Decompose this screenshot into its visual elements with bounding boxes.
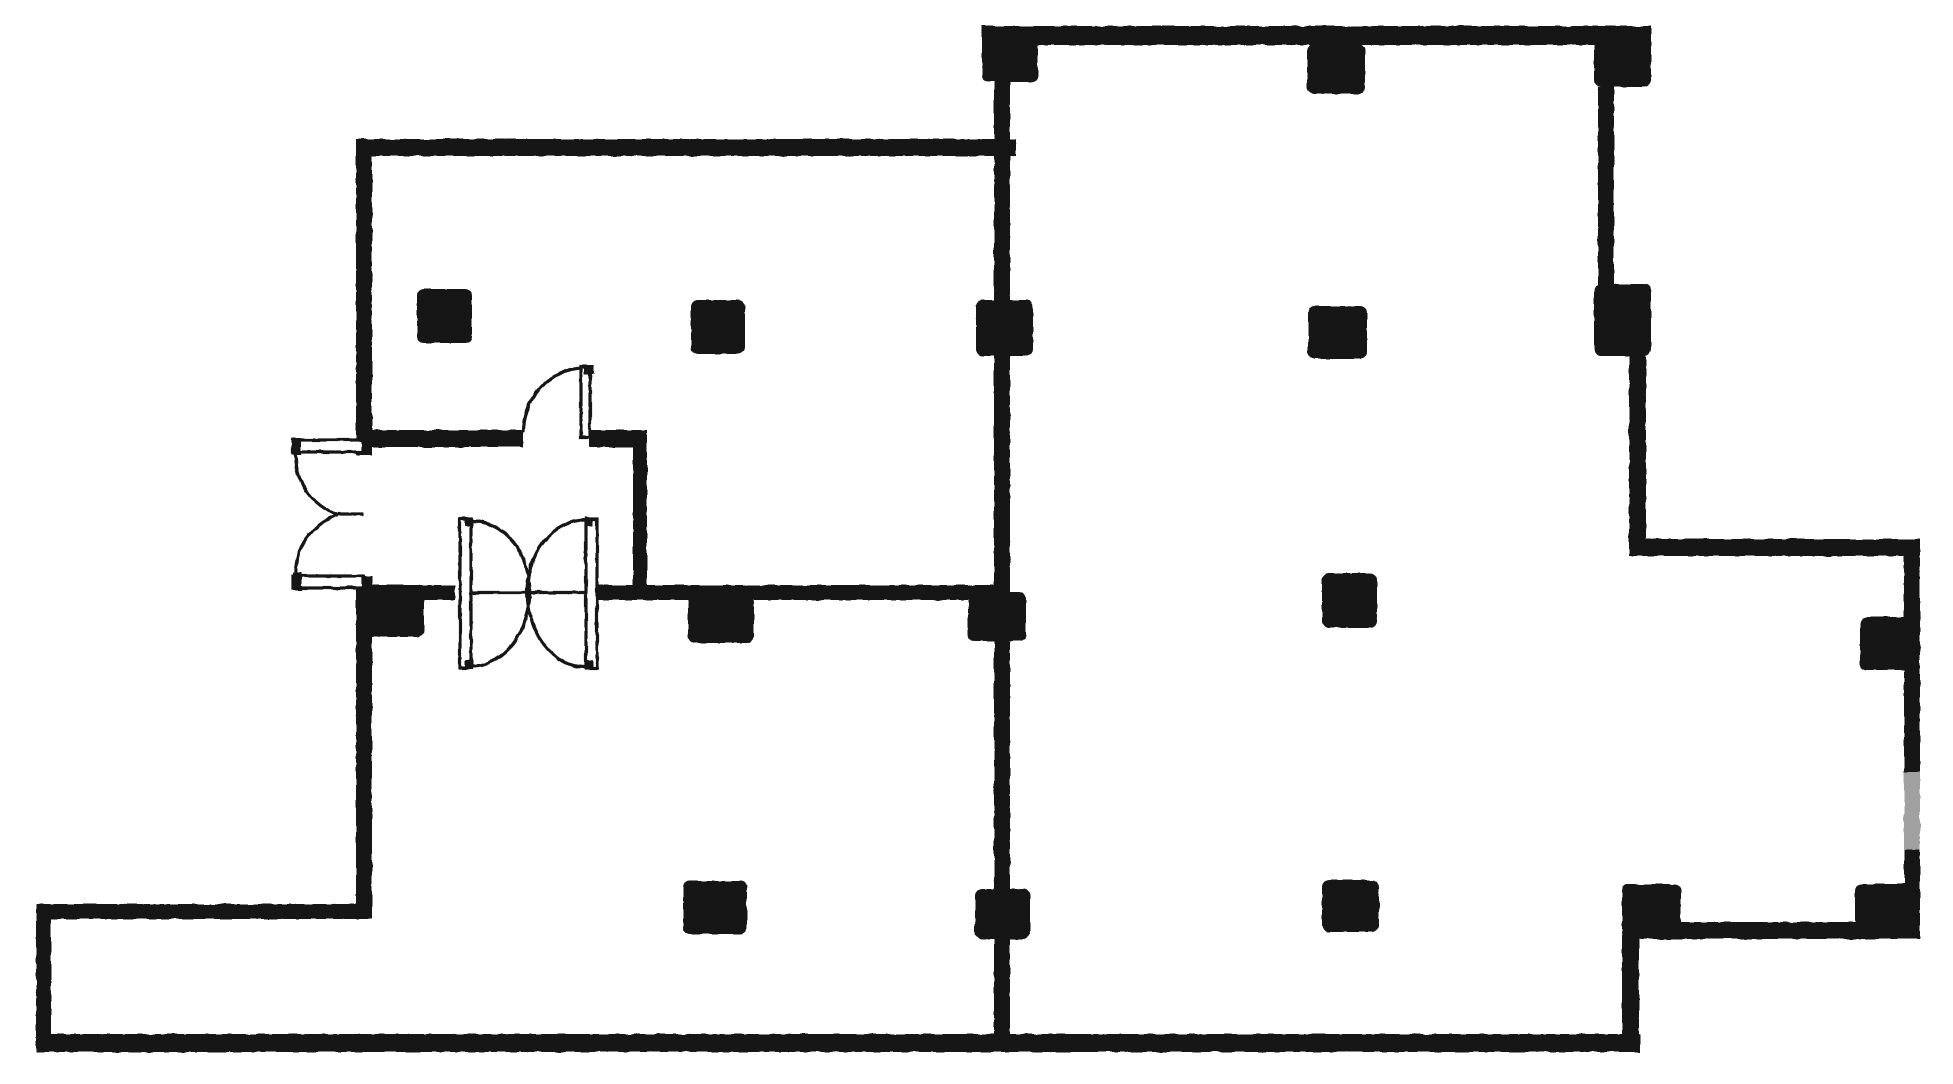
door D2 meeting line [338,512,364,515]
wall left outer upper [356,139,372,455]
column bottom middle free [683,881,747,934]
column upper-left room A [417,289,472,343]
column central wall at middle wall [968,592,1026,641]
column right room upper free [1308,306,1367,359]
door D3 left leaf (butterfly double door) [460,519,471,668]
column right jog [1594,284,1651,356]
column bottom-right jog [1622,884,1681,939]
wall bottom-right step vertical [1622,935,1639,1047]
door D3 lower-left leaf tick [465,660,473,668]
wall vestibule right [633,430,647,600]
wall central vertical [994,80,1010,1034]
wall right jog vertical [1629,350,1646,548]
wall left of bottom wing [36,904,51,1052]
door D3 thin wall line through opening [461,591,598,594]
door D3 upper-left swing arc [471,521,530,594]
wall left lower vertical [356,576,372,919]
door D3 upper-left leaf tick [465,518,473,526]
wall middle horizontal left of door D3 [356,585,455,600]
wall lower-left horizontal [36,904,372,919]
column below middle wall [688,596,754,643]
door D3 upper-right leaf tick [585,518,593,526]
door D2 bottom swing arc [296,515,338,574]
door D1 hinge tick [584,365,594,374]
column upper-left room B [691,300,745,354]
door D1 swing arc [523,368,582,433]
door D2 top swing arc [296,454,338,515]
column right room bottom free [1322,880,1379,932]
column left below vestibule [366,588,424,637]
door D3 right leaf [586,519,597,668]
door D2 top leaf end cap [292,438,301,455]
column top jog [982,31,1038,82]
column top middle [1307,44,1365,94]
wall right upper vertical [1598,87,1614,287]
column top-right corner [1594,35,1651,87]
door D3 lower-left swing arc [471,589,530,666]
door D3 lower-right leaf tick [585,660,593,668]
column on far right wall [1860,617,1914,670]
wall far right vertical [1904,539,1920,939]
wall step horizontal to far right [1629,539,1918,556]
door D3 lower-right swing arc [527,589,586,667]
wall stub right of door D1 [589,430,647,447]
wall middle horizontal right of door D3 [597,585,1010,600]
column right room middle free [1322,573,1377,628]
door D1 leaf (single door to upper-left room) [581,367,590,437]
door D2 bottom leaf end cap [293,572,302,590]
wall bottom-right horizontal [1675,922,1915,939]
door D3 upper-right swing arc [527,520,586,594]
column central wall upper [976,300,1033,356]
wall top of right section [982,26,1651,45]
wall bottom [36,1034,1640,1052]
scan fade on far right wall [1904,772,1920,850]
door D2 top leaf (left exterior double door) [293,440,363,452]
door D2 bottom leaf [293,576,363,588]
wall vestibule top left part [356,430,523,447]
column central wall lower [975,889,1030,939]
wall top of upper-left section [356,139,1016,156]
column bottom-right corner [1855,884,1915,926]
